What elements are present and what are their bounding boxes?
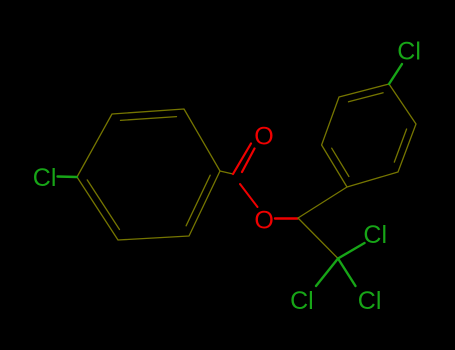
bond CH - ring2 — [298, 187, 347, 218]
ring1 aromatic double bond (top edge) — [121, 117, 177, 121]
ring1 aromatic double bond (lower-left edge) — [87, 180, 119, 230]
benzene ring 2 (right 4-chlorophenyl) — [322, 84, 416, 187]
svg-text:Cl: Cl — [358, 287, 382, 315]
svg-text:Cl: Cl — [33, 164, 57, 192]
svg-text:O: O — [254, 122, 273, 150]
svg-text:Cl: Cl — [290, 287, 314, 315]
ring2 aromatic double bond (lower-left edge) — [332, 148, 349, 176]
benzene ring 1 (left 4-chlorophenyl) — [77, 109, 220, 240]
svg-text:Cl: Cl — [363, 221, 387, 249]
ring1 aromatic double bond (lower-right edge) — [186, 175, 210, 226]
bond ester O - CH — [275, 217, 298, 219]
carbonyl C=O double bond line 1 — [233, 144, 251, 175]
bond CH - CCl3 carbon — [298, 218, 338, 259]
bond CCl3 - Cl lower left — [316, 259, 338, 287]
svg-text:Cl: Cl — [397, 38, 421, 66]
bond Cl2 - ring2 — [389, 64, 402, 84]
ring2 aromatic double bond (right edge) — [394, 129, 406, 162]
ring2 aromatic double bond (top edge) — [349, 93, 384, 102]
bond CCl3 - Cl lower right — [338, 259, 356, 287]
bond carbonyl C - ester O — [240, 184, 258, 207]
carbonyl C=O double bond line 2 — [242, 149, 255, 173]
bond Cl1 - ring1 — [58, 175, 78, 178]
bond CCl3 - Cl upper right — [338, 243, 365, 259]
bond ring1 - carbonyl C — [220, 171, 233, 174]
svg-text:O: O — [254, 207, 273, 235]
